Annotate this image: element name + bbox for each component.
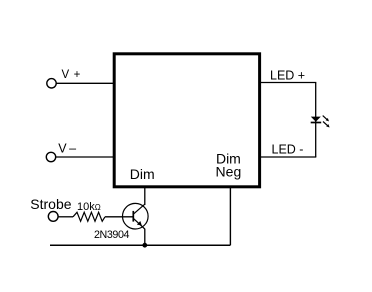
- wire V+ to box: [56, 82, 113, 84]
- svg-text:LED -: LED -: [272, 142, 304, 156]
- transistor Q1 collector lead: [133, 204, 145, 214]
- wire bottom rail: [50, 244, 230, 246]
- svg-text:V –: V –: [58, 142, 76, 156]
- resistor R1 10k zigzag: [73, 212, 105, 221]
- wire LED- from box: [260, 156, 316, 158]
- svg-text:10kΩ: 10kΩ: [77, 201, 101, 213]
- module box U1: [114, 54, 259, 187]
- wire V- to box: [56, 156, 113, 158]
- wire LED branch vertical: [315, 83, 317, 158]
- transistor Q1 emitter arrowhead: [137, 221, 142, 226]
- svg-text:LED +: LED +: [270, 69, 305, 83]
- terminal Strobe: [48, 212, 58, 222]
- terminal V-: [46, 152, 55, 161]
- svg-text:Neg: Neg: [216, 164, 242, 180]
- wire Strobe to resistor: [58, 216, 73, 218]
- wire resistor to base: [105, 216, 133, 218]
- wire emitter down: [144, 229, 146, 246]
- svg-text:Strobe: Strobe: [30, 196, 71, 212]
- LED light arrow 2: [323, 122, 330, 128]
- transistor Q1 base bar: [132, 211, 134, 222]
- wire LED+ from box: [260, 82, 316, 84]
- wire Dim Neg pin down: [229, 187, 231, 245]
- svg-text:V +: V +: [62, 69, 81, 81]
- LED D1 anode triangle: [311, 117, 321, 122]
- junction dot: [142, 243, 147, 248]
- LED D1 cathode bar: [311, 122, 322, 124]
- svg-text:Dim: Dim: [130, 166, 155, 182]
- svg-text:2N3904: 2N3904: [94, 229, 129, 241]
- terminal V+: [47, 79, 56, 88]
- LED light arrow 1: [323, 116, 329, 122]
- transistor Q1 circle: [123, 203, 149, 229]
- wire Dim pin to collector: [144, 187, 146, 205]
- transistor Q1 emitter lead: [133, 218, 145, 229]
